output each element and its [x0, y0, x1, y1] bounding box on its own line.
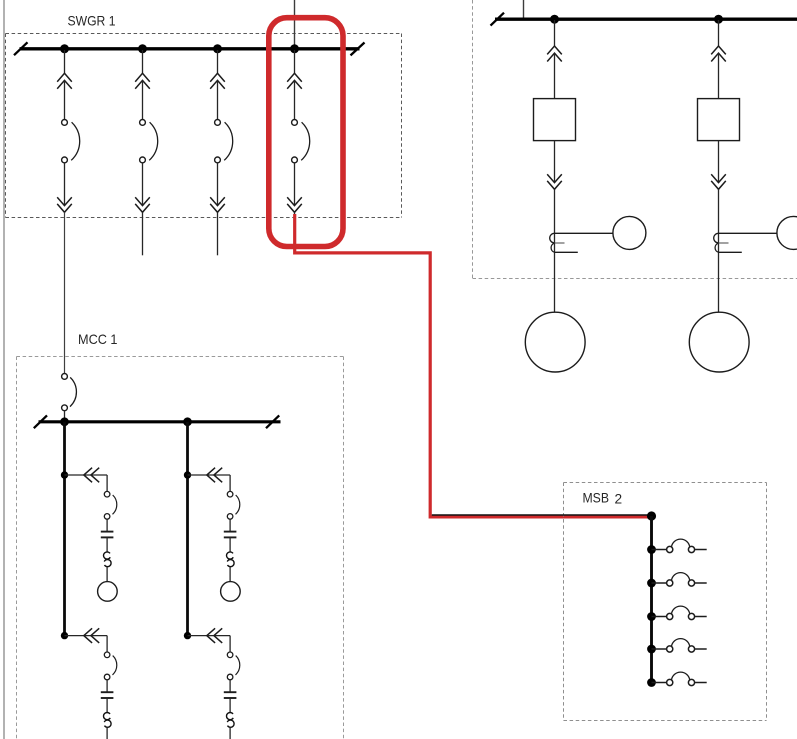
svg-text:SWGR 1: SWGR 1 [68, 13, 116, 28]
wire branch corner down [106, 636, 108, 652]
flow arrow (double chevron left) [207, 468, 222, 483]
wire to overload [229, 537, 231, 552]
contactor / starter K2 [714, 233, 777, 252]
wire feeder F3 tail [217, 212, 219, 255]
flow arrow (double chevron left) [84, 628, 99, 643]
wire TR feeder 1 [554, 53, 556, 99]
MSB2 vertical bus (bold) [650, 516, 653, 683]
flow arrow (double chevron up) feeder F1 [57, 73, 72, 89]
wire MSB2 branch [652, 582, 667, 584]
MCC1 vertical riser (bold) [186, 422, 189, 636]
wire feeder F1 drop [64, 50, 66, 73]
wire feeder F1 tail [64, 212, 66, 373]
node MSB2 tap y=682.5 [647, 678, 656, 687]
wire to overload [106, 537, 108, 552]
motor M2 [689, 312, 749, 372]
wire below breaker CB1 [64, 163, 66, 206]
wire TR feeder 2 to motor [718, 189, 720, 312]
transformer box TX1 [534, 99, 576, 141]
wire MSB2 branch [652, 549, 667, 551]
node MSB2 tap y=549.5 [647, 545, 656, 554]
flow arrow (double chevron down) TR feeder 1 [547, 174, 562, 189]
flow arrow (double chevron down) feeder F1 [57, 197, 72, 212]
flow arrow (double chevron down) TR feeder 2 [711, 174, 726, 189]
svg-text:2: 2 [615, 492, 623, 507]
bus SWGR1 [14, 42, 365, 55]
wire branch horizontal [65, 635, 108, 637]
flow arrow (double chevron down) feeder F3 [210, 197, 225, 212]
wire MSB2 branch out [695, 682, 707, 684]
wire MSB2 branch out [695, 582, 707, 584]
wire branch corner down [106, 475, 108, 491]
switch contacts [667, 639, 695, 652]
node MSB2 corner [647, 511, 656, 520]
contact bars (fused disconnect) [224, 532, 237, 538]
switch contacts [667, 573, 695, 586]
wire below TX1 [554, 141, 556, 183]
flow arrow (double chevron left) [207, 628, 222, 643]
wire MSB2 branch [652, 616, 667, 618]
node MSB2 tap y=616.5 [647, 612, 656, 621]
overload relay (S) [104, 552, 112, 567]
node SWGR1 bus junction J1 [60, 44, 69, 53]
wire MSB2 branch [652, 682, 667, 684]
incoming feeder to top-right bus [523, 0, 525, 19]
node MCC1 branch tap (64.5,635.6) [61, 632, 68, 639]
wire TR feeder 2 drop [718, 20, 720, 46]
wire continues off page [106, 727, 108, 739]
MCC1 main breaker [62, 374, 77, 411]
wire feeder F3 [217, 80, 219, 119]
MCC 1 enclosure (dashed) [17, 357, 344, 739]
wire branch horizontal [188, 635, 231, 637]
top-right enclosure (dashed) [473, 0, 797, 279]
wire to contact bars [106, 680, 108, 692]
wire MCC1 main to bus [64, 411, 66, 420]
wire below TX2 [718, 141, 720, 183]
wire feeder F3 drop [217, 50, 219, 73]
wire MSB2 branch out [695, 648, 707, 650]
node MCC1 branch tap (64.5,475) [61, 471, 68, 478]
wire to overload [229, 698, 231, 713]
contact bars (fused disconnect) [224, 692, 237, 698]
overload relay (S) [104, 713, 112, 728]
node MCC1 bus junction x=187.5 [183, 417, 192, 426]
svg-text:MCC 1: MCC 1 [78, 332, 118, 347]
SWGR 1 enclosure (dashed) [6, 34, 402, 218]
transformer box TX2 [698, 99, 740, 141]
pilot device circle for K1 [613, 216, 646, 249]
contact bars (fused disconnect) [101, 532, 114, 538]
motor M1 [525, 312, 585, 372]
MCC1 vertical riser (bold) [63, 422, 66, 636]
wire to contact bars [229, 680, 231, 692]
flow arrow (double chevron up) feeder F2 [135, 73, 150, 89]
MSB 2 enclosure (dashed) [564, 483, 767, 721]
node MSB2 tap y=583 [647, 579, 656, 588]
node MCC1 branch tap (187.5,635.6) [184, 632, 191, 639]
node SWGR1 bus junction J4 [290, 44, 299, 53]
node TR bus junction T2 [714, 15, 723, 24]
motor [221, 582, 241, 602]
wire MSB2 branch out [695, 616, 707, 618]
incoming feeder to SWGR1 bus [294, 0, 296, 49]
wire feeder F4 tail [294, 212, 296, 218]
flow arrow (double chevron up) TR feeder 1 [547, 46, 562, 62]
branch circuit breaker [227, 652, 239, 680]
wire TR feeder 1 to motor [554, 189, 556, 312]
node TR bus junction T1 [550, 15, 559, 24]
switch contacts [667, 672, 695, 685]
circuit breaker CB2 [140, 120, 158, 163]
wire to overload [106, 698, 108, 713]
wire below breaker CB4 [294, 163, 296, 206]
overload relay (S) [227, 713, 235, 728]
wire below breaker CB2 [142, 163, 144, 206]
wire feeder F1 [64, 80, 66, 119]
wire TR feeder 1 drop [554, 20, 556, 46]
circuit breaker CB3 [215, 120, 233, 163]
wire MSB2 branch [652, 648, 667, 650]
flow arrow (double chevron up) TR feeder 2 [711, 46, 726, 62]
bus top-right [491, 13, 797, 26]
wire feeder F4 drop [294, 50, 296, 73]
wire feeder F2 drop [142, 50, 144, 73]
wire branch corner down [229, 475, 231, 491]
wire branch horizontal [65, 474, 108, 476]
wire feeder F2 tail [142, 212, 144, 255]
red highlight rounded rectangle around feeder F4 [269, 18, 343, 247]
switch contacts [667, 606, 695, 619]
flow arrow (double chevron left) [84, 468, 99, 483]
flow arrow (double chevron up) feeder F4 [287, 73, 302, 89]
flow arrow (double chevron down) feeder F4 [287, 197, 302, 212]
branch circuit breaker [227, 491, 239, 519]
branch circuit breaker [104, 491, 116, 519]
wire feed into MSB2 [432, 514, 652, 516]
node SWGR1 bus junction J3 [213, 44, 222, 53]
flow arrow (double chevron down) feeder F2 [135, 197, 150, 212]
wire to contact bars [106, 519, 108, 531]
wire to motor [106, 567, 108, 582]
red highlight route from SWGR1 F4 to MSB 2 [295, 214, 652, 517]
wire feeder F4 [294, 80, 296, 119]
wire MSB2 branch out [695, 549, 707, 551]
wire branch horizontal [188, 474, 231, 476]
pilot device circle for K2 [777, 216, 797, 249]
overload relay (S) [227, 552, 235, 567]
branch circuit breaker [104, 652, 116, 680]
bus MCC1 [34, 415, 281, 428]
contactor / starter K1 [550, 233, 613, 252]
wire to contact bars [229, 519, 231, 531]
wire to motor [229, 567, 231, 582]
wire TR feeder 2 [718, 53, 720, 99]
wire below breaker CB3 [217, 163, 219, 206]
motor [98, 582, 118, 602]
node MCC1 bus junction x=64.5 [60, 417, 69, 426]
flow arrow (double chevron up) feeder F3 [210, 73, 225, 89]
wire continues off page [229, 727, 231, 739]
contact bars (fused disconnect) [101, 692, 114, 698]
node MSB2 tap y=649 [647, 645, 656, 654]
node SWGR1 bus junction J2 [138, 44, 147, 53]
node MCC1 branch tap (187.5,475) [184, 471, 191, 478]
switch contacts [667, 539, 695, 552]
wire branch corner down [229, 636, 231, 652]
circuit breaker CB4 [292, 120, 310, 163]
svg-text:MSB: MSB [583, 491, 610, 506]
wire feeder F2 [142, 80, 144, 119]
page edge [3, 0, 5, 739]
circuit breaker CB1 [62, 120, 80, 163]
